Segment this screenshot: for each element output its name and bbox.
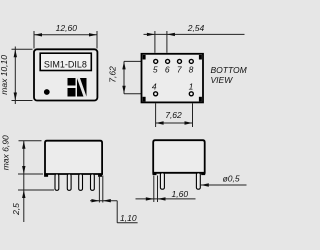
svg-text:max 6,90: max 6,90 (1, 135, 11, 170)
svg-text:BOTTOM: BOTTOM (211, 65, 248, 75)
logo (68, 77, 87, 97)
dim 1,60 (136, 176, 196, 203)
svg-text:SIM1-DIL8: SIM1-DIL8 (44, 59, 87, 69)
svg-text:5: 5 (153, 64, 158, 74)
svg-text:2,54: 2,54 (187, 23, 205, 33)
pin1 dot (44, 89, 50, 95)
pin 1 pad (189, 92, 193, 96)
svg-text:VIEW: VIEW (211, 75, 234, 85)
pin 7 pad (178, 59, 182, 63)
pin 6 pad (166, 59, 170, 63)
body (45, 141, 102, 174)
svg-text:ø0,5: ø0,5 (223, 174, 240, 184)
svg-text:8: 8 (189, 64, 194, 74)
pin 4 pad (154, 92, 158, 96)
svg-text:2,5: 2,5 (11, 203, 21, 216)
pin 5 pad (154, 59, 158, 63)
body (153, 140, 205, 173)
module body top view (34, 49, 97, 100)
svg-text:7: 7 (177, 64, 182, 74)
module body bottom view (142, 54, 204, 103)
feet (153, 172, 157, 175)
dim max 10,10 (left) (0, 47, 33, 105)
dim 12,60 (top) (34, 23, 97, 49)
dim 2,54 (top) (144, 23, 245, 53)
dim max 6,90 + 2,5 (left) (1, 135, 55, 222)
pin 8 pad (189, 59, 193, 63)
svg-text:1: 1 (189, 82, 194, 92)
svg-text:max 10,10: max 10,10 (0, 55, 9, 95)
svg-text:7,62: 7,62 (108, 66, 118, 83)
svg-text:1,10: 1,10 (120, 213, 137, 223)
feet (44, 173, 48, 176)
svg-text:7,62: 7,62 (165, 110, 182, 120)
pin numbers 5 6 7 8 (153, 64, 194, 74)
svg-text:4: 4 (152, 82, 157, 92)
svg-text:1,60: 1,60 (172, 189, 189, 199)
svg-text:12,60: 12,60 (56, 23, 78, 33)
pins (55, 174, 94, 190)
dim 7,62 (bottom of bottom view) (156, 103, 193, 127)
dim 1,10 (leader) (90, 176, 138, 224)
svg-text:6: 6 (165, 64, 170, 74)
dim ø0,5 (leader) (201, 174, 247, 187)
label box SIM1-DIL8 (40, 53, 91, 70)
dim 7,62 (vertical, left of bottom view) (108, 61, 142, 93)
pins (160, 173, 164, 189)
corner marks (143, 55, 146, 60)
